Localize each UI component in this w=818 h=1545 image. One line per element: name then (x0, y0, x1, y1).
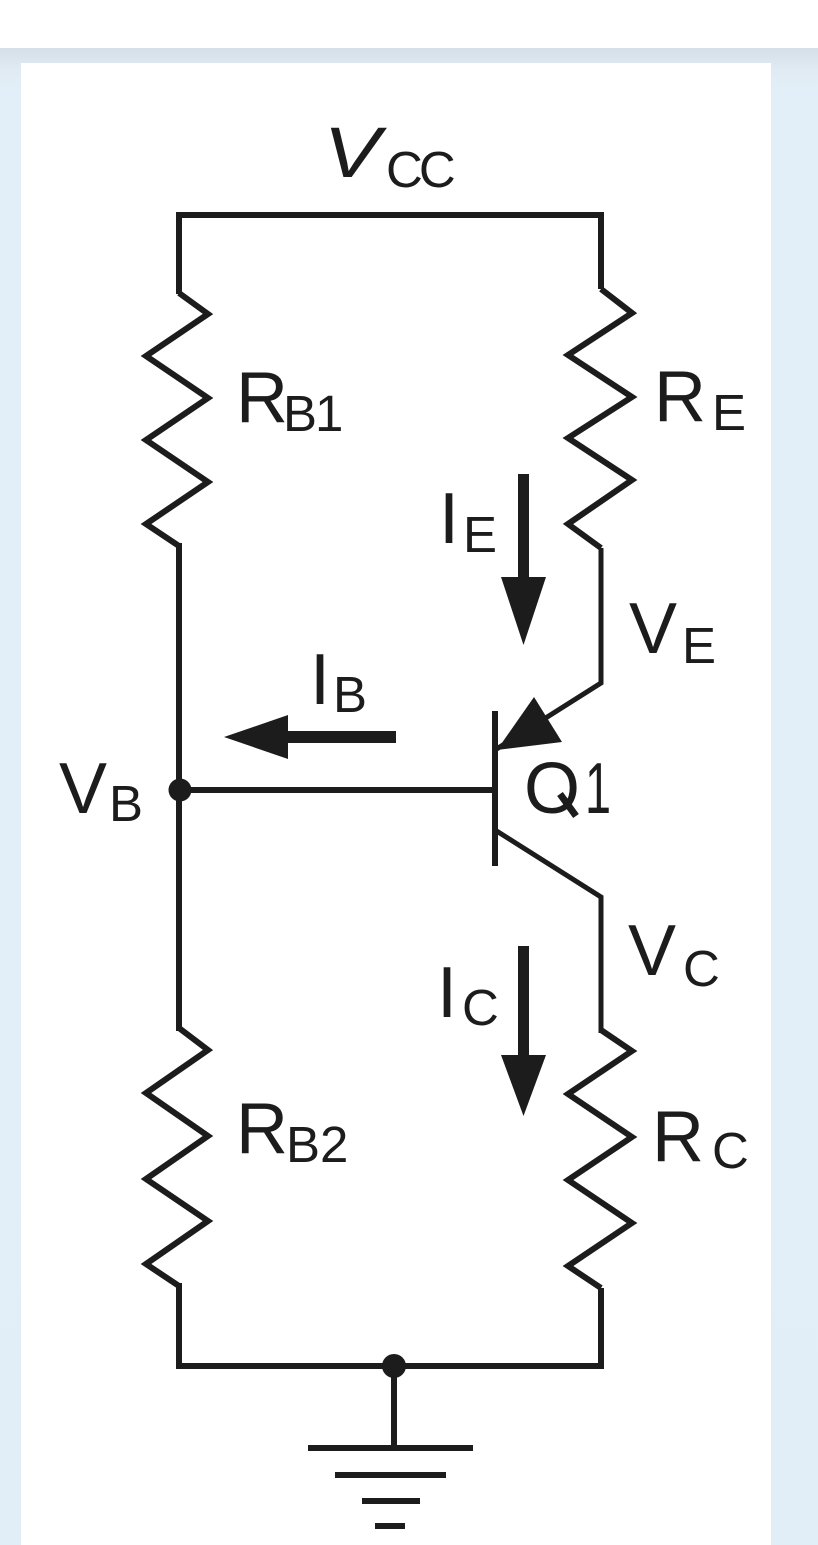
svg-text:C: C (683, 940, 720, 997)
arrow IE shaft (518, 474, 529, 578)
svg-text:E: E (682, 617, 716, 674)
transistor label Q tail (560, 794, 576, 816)
transistor Q1 emitter arrowhead (497, 697, 562, 750)
ground bar 1 (308, 1445, 473, 1451)
svg-text:V: V (628, 911, 676, 991)
svg-text:O: O (524, 749, 580, 829)
transistor Q1 base bar (492, 711, 498, 866)
svg-text:I: I (310, 640, 330, 720)
svg-text:CC: CC (386, 141, 454, 198)
wire: base from node VB (180, 787, 494, 793)
svg-text:R: R (236, 1089, 288, 1169)
resistor RB2 (146, 1028, 208, 1286)
arrow IB head (224, 715, 288, 759)
svg-text:V: V (59, 749, 107, 829)
wire: VCC top rail (179, 215, 601, 294)
arrow IB shaft (286, 731, 396, 743)
svg-text:B: B (333, 666, 367, 723)
wire: emitter to RE (495, 548, 601, 750)
svg-text:R: R (652, 1097, 704, 1177)
ground stem (391, 1366, 397, 1448)
svg-text:E: E (712, 384, 746, 441)
svg-text:R: R (654, 357, 706, 437)
svg-text:V: V (629, 589, 677, 669)
node dot VB (169, 779, 192, 802)
svg-text:I: I (439, 479, 459, 559)
svg-text:E: E (463, 506, 497, 563)
arrow IC head (501, 1055, 546, 1116)
resistor RB1 (146, 293, 208, 546)
svg-text:C: C (712, 1122, 749, 1179)
wire: collector to RC (495, 830, 601, 1033)
ground bar 3 (362, 1498, 420, 1504)
ground bar 2 (335, 1472, 446, 1478)
svg-text:C: C (462, 979, 499, 1036)
svg-text:V: V (324, 113, 388, 193)
svg-text:R: R (236, 358, 288, 438)
svg-text:B: B (109, 775, 143, 832)
resistor RC (568, 1030, 632, 1288)
arrow IC shaft (518, 946, 529, 1056)
wire: bottom rail (179, 1283, 601, 1366)
svg-text:I: I (437, 953, 457, 1033)
resistor RE (568, 289, 632, 548)
arrow IE head (501, 577, 546, 645)
node dot ground junction (382, 1354, 406, 1378)
svg-text:B2: B2 (286, 1116, 348, 1173)
wire: left rail RB1 to RB2 through node VB (176, 543, 182, 1031)
svg-text:1: 1 (585, 748, 611, 829)
svg-text:B1: B1 (283, 385, 341, 442)
ground bar 4 (375, 1523, 405, 1529)
